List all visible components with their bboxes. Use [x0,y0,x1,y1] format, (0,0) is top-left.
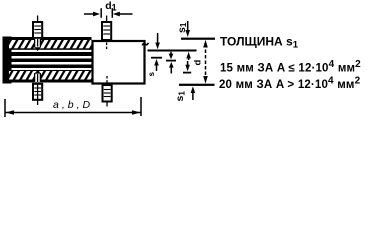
extension line L4 (bottom edge) [179,84,215,86]
bottom plate top edge extension bar [183,72,191,74]
stud B3 bottom-left shank hole in bottom plate [34,72,41,83]
d arrow down to L4 [203,76,208,84]
arrow down to L2 [157,33,159,44]
stud B2 body [102,22,111,40]
lamina stripe A [8,52,92,56]
extension line L1 (top edge) [181,38,215,40]
arrow up to stripe bar [169,62,174,68]
right end block [93,41,145,84]
laminate top edge line [3,37,92,40]
bottom plate top edge [9,70,92,72]
left end plate (solid section) [3,37,12,84]
thin stripe extension bar [166,60,176,62]
squiggle ~ [142,43,148,46]
small bar under arrow group [151,57,162,59]
stud B1 thread marks [34,26,41,33]
dimension a,b,D left arrowhead [6,110,15,115]
stud B2 centerline in block (dashed) [106,43,108,51]
arrow down to bottom plate top edge [187,61,189,67]
laminate bottom edge line [3,80,92,83]
dimension d1 left arrowhead [93,12,100,17]
dimension d1 right leader line [119,13,133,15]
svg-text:ТОЛЩИНА s1: ТОЛЩИНА s1 [220,35,299,51]
dimension d1 right tick [111,8,113,18]
arrow up to L4 from below [191,86,196,93]
arrow up to L2 from below [186,52,191,59]
stud B3 centerline [37,84,39,105]
stud B2 top-right: centerline [106,16,108,41]
tall dimension d shaft (dashed) [205,44,207,78]
d arrow up to L1 [203,40,208,48]
stud B1 shank hole in top plate [34,39,41,49]
arrow up to small bar [154,59,159,66]
dimension a,b,D left extension tick [4,99,6,117]
svg-text:d1: d1 [105,0,116,13]
dimension d1 left leader line [84,13,94,15]
stud B4 centerline [106,102,108,107]
dimension d1 left tick [100,8,102,18]
svg-text:d: d [193,60,204,66]
extension line L2 [148,50,197,52]
svg-text:a , b , D: a , b , D [53,99,91,111]
stud B4 bottom-right centerline in block (dashed) [106,76,108,85]
dimension a,b,D line [5,112,141,114]
stud B1 top-left: centerline [37,16,39,39]
dimension a,b,D right extension tick [140,97,142,116]
stud B3 thread marks [34,88,41,95]
bottom hatched plate [9,71,92,80]
stud B4 thread marks [104,90,111,97]
dimension d1 right arrowhead [113,12,120,17]
stud B2 thread marks [103,26,110,34]
lamina stripe B [8,59,92,63]
stud B3 hole tip [34,70,40,74]
top hatched plate [9,40,92,50]
arrow down to L1 [187,21,189,32]
dimension a,b,D right arrowhead [132,110,141,115]
arrow down to stripe bar [170,52,172,55]
stud B3 body [33,84,42,100]
svg-text:s: s [147,72,156,77]
stud B4 body [103,85,112,102]
stud B1 hole tip [34,47,40,51]
lamina stripe C [8,65,92,69]
top plate bottom edge [9,48,92,50]
stud B1 body [33,22,42,38]
